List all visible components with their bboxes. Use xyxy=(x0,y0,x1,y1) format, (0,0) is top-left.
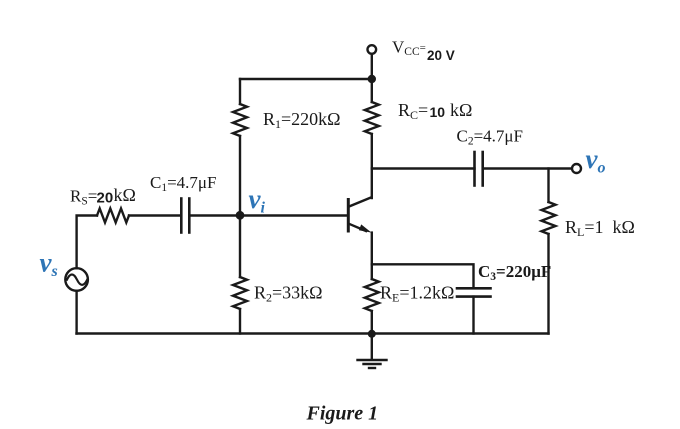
resistor RL xyxy=(542,202,556,234)
svg-text:RE=1.2kΩ: RE=1.2kΩ xyxy=(380,283,454,305)
wire C1 to node vi xyxy=(189,214,240,216)
svg-text:C2=4.7μF: C2=4.7μF xyxy=(457,127,524,148)
ground xyxy=(358,334,387,368)
wire R1 top xyxy=(239,79,241,104)
wire vs bottom xyxy=(75,291,77,334)
svg-text:VCC=: VCC= xyxy=(392,38,426,59)
label VCC=20 V xyxy=(392,38,455,63)
resistor RC xyxy=(365,102,379,134)
transistor Q1 xyxy=(348,198,371,233)
svg-text:Figure 1: Figure 1 xyxy=(306,403,379,425)
wire C3 bottom xyxy=(472,297,474,334)
svg-text:kΩ: kΩ xyxy=(450,100,472,120)
svg-text:R2=33kΩ: R2=33kΩ xyxy=(254,283,323,305)
resistor R1 xyxy=(233,104,247,136)
svg-text:RL=1 kΩ: RL=1 kΩ xyxy=(565,217,635,239)
wire emitter down xyxy=(371,233,373,279)
svg-text:vo: vo xyxy=(586,144,606,177)
wire RC top xyxy=(371,79,373,102)
svg-text:vi: vi xyxy=(249,184,266,217)
capacitor C2 xyxy=(475,152,483,186)
wire R1 bottom to node vi xyxy=(239,136,241,216)
wire collector to C2 xyxy=(372,167,475,169)
wire RL top xyxy=(547,169,549,203)
svg-text:20 V: 20 V xyxy=(427,48,455,63)
wire RL bottom xyxy=(547,234,549,334)
svg-text:20: 20 xyxy=(97,190,114,207)
svg-text:10: 10 xyxy=(430,104,446,120)
node terminal vo xyxy=(572,164,581,173)
wire R2 bottom xyxy=(239,309,241,334)
node junction ground xyxy=(368,330,376,338)
svg-text:vs: vs xyxy=(40,248,58,281)
resistor RE xyxy=(365,279,379,311)
wire top rail xyxy=(240,78,372,80)
source vs xyxy=(65,268,88,291)
wire C2 to vo terminal xyxy=(483,167,572,169)
svg-text:R1=220kΩ: R1=220kΩ xyxy=(263,109,341,131)
wire bypass branch top xyxy=(372,264,474,288)
wire base xyxy=(240,214,348,216)
resistor RS xyxy=(97,209,129,223)
wire vs top xyxy=(77,216,97,269)
svg-text:RS=: RS= xyxy=(70,187,97,208)
wire RC bottom to collector xyxy=(371,134,373,198)
label RS=20kOhm xyxy=(70,185,136,208)
svg-text:C3=220μF: C3=220μF xyxy=(478,262,551,283)
wire bottom rail xyxy=(77,332,549,334)
svg-text:C1=4.7μF: C1=4.7μF xyxy=(150,173,217,194)
wire RS to C1 xyxy=(129,214,181,216)
capacitor C3 xyxy=(457,288,491,296)
power terminal VCC xyxy=(368,45,377,75)
resistor R2 xyxy=(233,277,247,309)
label RC=10 kOhm xyxy=(398,100,472,122)
node junction below VCC xyxy=(368,75,376,83)
wire RE bottom xyxy=(371,311,373,334)
node vi junction xyxy=(236,211,245,220)
svg-text:kΩ: kΩ xyxy=(114,185,136,205)
wire R2 top xyxy=(239,216,241,278)
svg-text:RC=: RC= xyxy=(398,100,428,122)
capacitor C1 xyxy=(181,199,189,233)
